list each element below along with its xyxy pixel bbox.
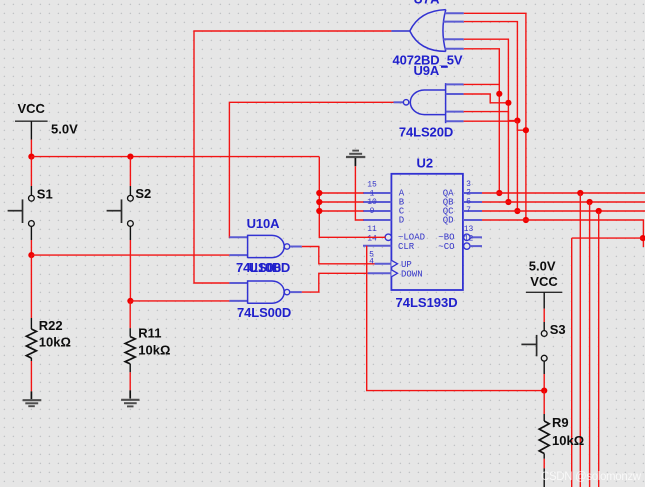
pin U2.2 QB: [443, 189, 482, 208]
svg-text:QD: QD: [443, 215, 454, 225]
node U9A input4 QD net: [523, 127, 529, 133]
svg-text:12: 12: [464, 235, 474, 244]
wire S2 bottom to node: [129, 226, 131, 301]
pin U2.4 DOWN: [368, 258, 423, 280]
wire rail to S2 top: [129, 157, 131, 196]
wire S1 node to U10A input B: [31, 254, 229, 256]
pin U2.9 D: [363, 207, 404, 226]
wire rail to S1 top: [30, 157, 32, 196]
pin U2.10 C: [363, 198, 405, 216]
node QB right: [587, 199, 593, 205]
node U9A input3 QC net: [514, 118, 520, 124]
svg-text:10kΩ: 10kΩ: [138, 343, 170, 358]
wire S3 bottom to node: [543, 361, 545, 391]
nand-gate U10A 74LS00D: [229, 216, 301, 275]
node U9A input1 QA net: [496, 91, 502, 97]
wire VCC1 to rail: [30, 140, 32, 158]
switch S1: [8, 186, 53, 226]
svg-text:UP: UP: [401, 260, 412, 270]
pin U2.14 CLR: [363, 235, 415, 252]
wire S2 node to U10B input B: [130, 300, 229, 302]
switch S3: [521, 322, 565, 361]
wire VCC2 to S3: [543, 309, 545, 331]
wire QC net down: [598, 211, 600, 487]
svg-text:CSDN @solomonzw: CSDN @solomonzw: [541, 471, 642, 483]
node S2-R11: [127, 298, 133, 304]
ground GND2: [121, 390, 139, 406]
wire QC net: [482, 210, 645, 212]
node B net: [316, 199, 322, 205]
wire QB net: [482, 201, 645, 203]
node QD net top: [523, 217, 529, 223]
pin U2.3 QA: [443, 180, 482, 198]
node A net: [316, 190, 322, 196]
svg-text:R22: R22: [39, 318, 63, 333]
svg-text:6: 6: [466, 197, 471, 206]
svg-text:U2: U2: [417, 156, 434, 171]
svg-text:74LS00D: 74LS00D: [237, 305, 291, 320]
pin U2.11 ~LOAD: [367, 225, 425, 243]
svg-text:S3: S3: [550, 322, 566, 337]
svg-text:10: 10: [367, 198, 377, 207]
node VCC rail at S2: [127, 154, 133, 160]
wire GND3 to U2 D: [355, 166, 363, 220]
svg-text:2: 2: [466, 189, 471, 198]
svg-text:74LS20D: 74LS20D: [399, 125, 453, 140]
svg-text:U10A: U10A: [247, 216, 281, 231]
power VCC1 5.0V: [15, 101, 78, 140]
svg-text:1: 1: [370, 189, 375, 198]
node QA right: [577, 190, 583, 196]
node VCC rail at S1: [28, 154, 34, 160]
svg-text:CLR: CLR: [398, 242, 415, 252]
pin U2.5 UP: [369, 250, 412, 269]
wire U7A input1 to QD net: [464, 13, 526, 220]
wire U10B output to U2 DOWN: [302, 273, 368, 292]
wire QD net elbow: [482, 220, 643, 247]
svg-text:10kΩ: 10kΩ: [39, 334, 71, 349]
pin U2.7 QD: [443, 206, 482, 225]
wire VCC rail to A B C and ~LOAD: [319, 157, 385, 238]
wire QD net down: [571, 238, 573, 487]
wire U9A input2 to QB net: [464, 94, 509, 103]
wire QD net to left: [572, 237, 644, 239]
wire QA net: [482, 192, 645, 194]
wire U9A output to U10A input A: [229, 102, 393, 237]
svg-text:R9: R9: [552, 415, 569, 430]
wire U7A input4 to QA net: [464, 49, 500, 193]
svg-text:U10B: U10B: [249, 260, 282, 275]
node U9A input2 QB net: [505, 100, 511, 106]
pin U2.1 B: [363, 189, 405, 207]
svg-text:13: 13: [464, 225, 474, 234]
or-gate U7A 4072BD_5V: [391, 0, 464, 67]
wire U7A input3 to QB net: [464, 39, 509, 202]
wire U10A output to U2 UP: [302, 247, 375, 264]
node S3-R9-CLR: [541, 388, 547, 394]
svg-text:U7A: U7A: [413, 0, 440, 7]
svg-text:74LS193D: 74LS193D: [396, 295, 458, 310]
svg-text:DOWN: DOWN: [401, 269, 423, 279]
svg-text:5.0V: 5.0V: [51, 122, 78, 137]
svg-text:U9A: U9A: [414, 63, 440, 78]
node C net: [316, 208, 322, 214]
ground GND1: [23, 391, 42, 406]
svg-text:11: 11: [367, 225, 377, 234]
svg-text:4: 4: [369, 258, 374, 267]
wire VCC rail: [31, 156, 319, 158]
resistor R9 10k: [539, 414, 584, 487]
resistor R22 10k: [26, 318, 71, 391]
wire QB net down: [589, 202, 591, 487]
wire U9A input3 to QC net: [464, 112, 518, 121]
wire node to R9: [543, 391, 545, 414]
pin U2.13 ~BO: [438, 225, 482, 243]
pin U2.15 A: [363, 181, 405, 199]
wire node to R11: [129, 301, 131, 328]
wire S1 bottom to node: [30, 226, 32, 255]
svg-text:S2: S2: [135, 186, 151, 201]
ic U2 74LS193D body: [391, 156, 463, 310]
power VCC2 5.0V: [526, 258, 562, 308]
node QA net top: [496, 190, 502, 196]
svg-text:VCC: VCC: [530, 274, 558, 289]
node QB net top: [505, 199, 511, 205]
pin U2.12 ~CO: [438, 235, 482, 252]
wire node to R22: [30, 255, 32, 318]
node QC right: [596, 208, 602, 214]
svg-text:S1: S1: [37, 186, 53, 201]
svg-text:14: 14: [367, 235, 377, 244]
pin U2.6 QC: [443, 197, 482, 216]
wire U2 CLR to S3-R9 node: [367, 246, 545, 391]
svg-text:R11: R11: [138, 325, 161, 340]
wire QA net down: [579, 193, 581, 487]
svg-text:3: 3: [466, 180, 471, 189]
resistor R11 10k: [125, 325, 170, 390]
svg-text:7: 7: [466, 206, 471, 215]
wire U7A output to U10B input A: [194, 31, 391, 283]
svg-text:~CO: ~CO: [438, 242, 454, 252]
node QC net top: [514, 208, 520, 214]
svg-text:15: 15: [367, 181, 377, 190]
node S1-R22: [28, 252, 34, 258]
ground GND3: [346, 151, 365, 167]
svg-text:9: 9: [370, 207, 375, 216]
wire U9A input1 to QA net: [464, 83, 500, 85]
wire U9A input4 to QD net: [464, 121, 526, 130]
svg-text:VCC: VCC: [18, 101, 46, 116]
svg-text:D: D: [399, 215, 404, 225]
svg-text:10kΩ: 10kΩ: [552, 433, 584, 448]
node QD right: [640, 235, 645, 241]
svg-text:5.0V: 5.0V: [529, 258, 556, 273]
nand-gate U10B 74LS00D: [229, 280, 301, 320]
switch S2: [107, 186, 152, 226]
nand-gate U9A 74LS20D: [394, 63, 464, 139]
wire U7A input2 to QC net: [464, 22, 518, 211]
